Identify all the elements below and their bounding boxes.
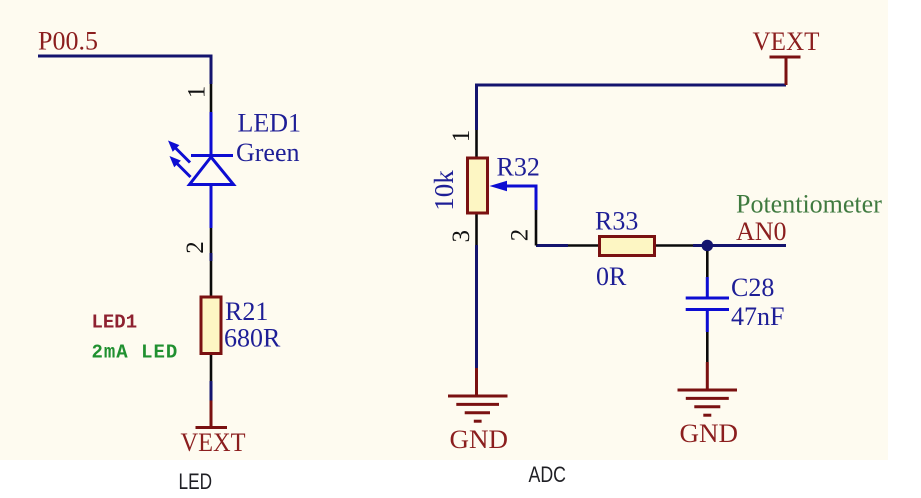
svg-text:LED: LED [179,469,213,494]
svg-text:47nF: 47nF [731,302,784,331]
svg-text:LED1: LED1 [238,109,302,138]
svg-text:0R: 0R [596,262,627,291]
svg-text:3: 3 [448,230,475,243]
svg-text:LED1: LED1 [92,312,138,334]
svg-text:VEXT: VEXT [181,428,246,457]
svg-text:P00.5: P00.5 [38,27,98,56]
svg-text:ADC: ADC [529,462,567,487]
svg-text:1: 1 [184,86,211,99]
svg-text:1: 1 [448,130,475,143]
svg-text:GND: GND [680,419,739,448]
svg-text:10k: 10k [429,170,459,211]
svg-text:C28: C28 [731,273,774,302]
svg-text:R21: R21 [225,297,268,326]
svg-text:2: 2 [507,229,534,242]
svg-text:R32: R32 [497,153,540,182]
svg-text:VEXT: VEXT [753,27,820,56]
svg-text:Green: Green [236,138,300,167]
svg-text:AN0: AN0 [736,217,787,246]
svg-text:2mA LED: 2mA LED [92,342,179,364]
svg-text:680R: 680R [224,324,281,353]
svg-text:2: 2 [182,241,209,254]
svg-text:GND: GND [450,425,509,454]
svg-text:R33: R33 [595,207,638,236]
svg-text:Potentiometer: Potentiometer [736,190,882,219]
